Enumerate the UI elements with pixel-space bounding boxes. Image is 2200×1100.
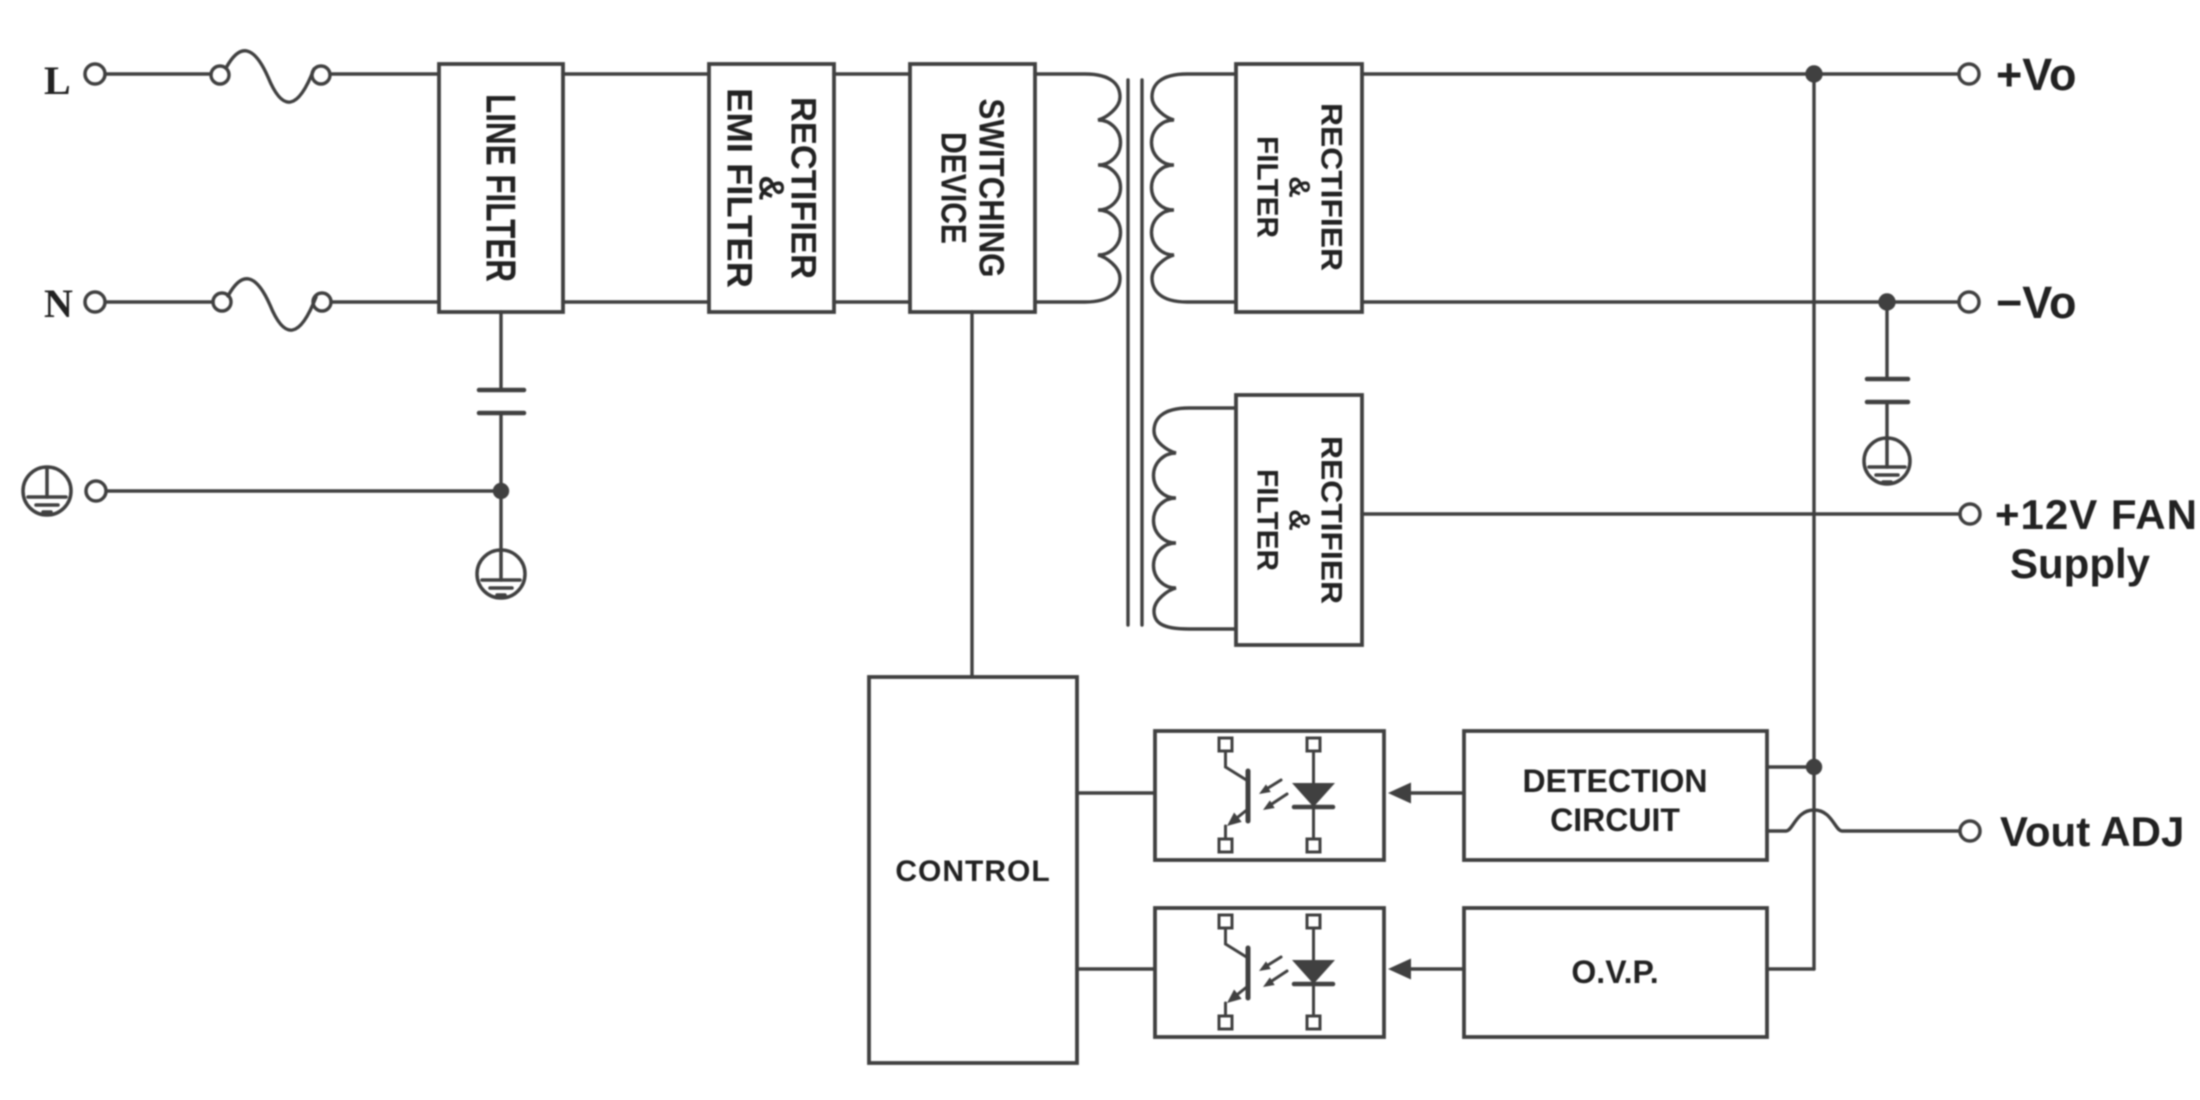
wire control to opto 1: [1077, 791, 1155, 794]
wire EMI to switching bottom: [834, 300, 910, 303]
svg-text:Vout ADJ: Vout ADJ: [2000, 808, 2184, 855]
wire EMI to switching top: [834, 72, 910, 75]
svg-text:FILTER: FILTER: [1251, 136, 1284, 238]
block OVP: [1464, 908, 1767, 1037]
ground PE terminal symbol: [23, 467, 71, 515]
block LINE FILTER: [439, 64, 563, 312]
wire +12V fan supply: [1362, 512, 1960, 515]
svg-text:+Vo: +Vo: [1996, 49, 2076, 100]
svg-text:FILTER: FILTER: [1251, 469, 1284, 571]
ground symbol below C2: [1864, 438, 1910, 484]
node Vout ADJ terminal: [1960, 821, 1980, 841]
transformer T1 core: [1128, 80, 1142, 625]
arrow into opto1: [1388, 783, 1411, 804]
capacitor C2 output Y-cap: [1867, 302, 1908, 439]
arrow into opto2: [1388, 959, 1411, 980]
svg-text:LINE FILTER: LINE FILTER: [478, 94, 525, 282]
block RECTIFIER & FILTER top: [1236, 64, 1362, 312]
svg-text:+12V FAN: +12V FAN: [1995, 491, 2198, 538]
node junction detection: [1808, 761, 1821, 774]
svg-text:&: &: [1283, 176, 1316, 198]
block SWITCHING DEVICE: [910, 64, 1035, 312]
svg-text:CONTROL: CONTROL: [895, 855, 1050, 888]
transformer T1 secondary winding 1: [1152, 74, 1237, 302]
node junction -Vo: [1880, 295, 1894, 309]
wire switching device to control: [970, 312, 973, 677]
fuse F1: [211, 51, 330, 102]
wire fuse to line filter: [330, 72, 439, 75]
opto-coupler U1 internals: [1219, 738, 1335, 852]
node L terminal: [85, 64, 105, 84]
node +Vo terminal: [1959, 64, 1979, 84]
svg-text:&: &: [1283, 509, 1316, 531]
wire +Vo feedback vertical: [1812, 74, 1815, 969]
wire detection to opto1 with arrow: [1408, 791, 1464, 794]
node N terminal: [85, 292, 105, 312]
ground symbol below C1: [477, 550, 525, 598]
wire detection upper stub: [1767, 765, 1814, 768]
block DETECTION CIRCUIT: [1464, 731, 1767, 860]
wire N to fuse: [106, 300, 213, 303]
svg-text:RECTIFIER: RECTIFIER: [1315, 436, 1348, 604]
svg-text:DETECTION: DETECTION: [1523, 763, 1708, 799]
wire control to opto 2: [1077, 967, 1155, 970]
svg-text:O.V.P.: O.V.P.: [1571, 954, 1658, 990]
block RECTIFIER & EMI FILTER: [709, 64, 834, 312]
wire OVP to feedback line: [1767, 967, 1814, 970]
wire -Vo: [1362, 300, 1959, 303]
fuse F2: [213, 279, 331, 330]
wire fuse to line filter: [331, 300, 439, 303]
wire L to fuse: [106, 72, 211, 75]
wire N line filter to rectifier/EMI: [563, 300, 709, 303]
node junction +Vo: [1807, 67, 1821, 81]
transformer T1 secondary winding 2: [1154, 408, 1237, 629]
transformer T1 primary winding: [1035, 74, 1121, 302]
wire FG terminal to junction: [107, 489, 501, 492]
svg-text:SWITCHING: SWITCHING: [972, 99, 1011, 278]
opto-coupler U1 box: [1155, 731, 1384, 860]
block RECTIFIER & FILTER bottom: [1236, 395, 1362, 645]
wire L line filter to rectifier/EMI: [563, 72, 709, 75]
svg-text:EMI FILTER: EMI FILTER: [720, 88, 759, 288]
node FG terminal: [86, 481, 106, 501]
svg-text:L: L: [44, 58, 71, 103]
svg-text:RECTIFIER: RECTIFIER: [1315, 103, 1348, 271]
node +12V terminal: [1960, 504, 1980, 524]
node FG junction: [495, 485, 508, 498]
svg-text:DEVICE: DEVICE: [934, 132, 973, 244]
svg-text:N: N: [44, 281, 73, 326]
svg-text:−Vo: −Vo: [1996, 277, 2076, 328]
svg-text:CIRCUIT: CIRCUIT: [1550, 802, 1680, 838]
capacitor C1 Y-cap: [479, 312, 524, 549]
arrowheads: [1388, 783, 1411, 980]
svg-text:Supply: Supply: [2010, 540, 2151, 587]
wire OVP to opto2 with arrow: [1408, 967, 1464, 970]
node -Vo terminal: [1959, 292, 1979, 312]
opto-coupler U2 box: [1155, 908, 1384, 1037]
block CONTROL: [869, 677, 1077, 1063]
wire +Vo: [1362, 72, 1959, 75]
wire Vout ADJ with hop: [1767, 810, 1959, 831]
opto-coupler U2 internals: [1219, 915, 1335, 1029]
